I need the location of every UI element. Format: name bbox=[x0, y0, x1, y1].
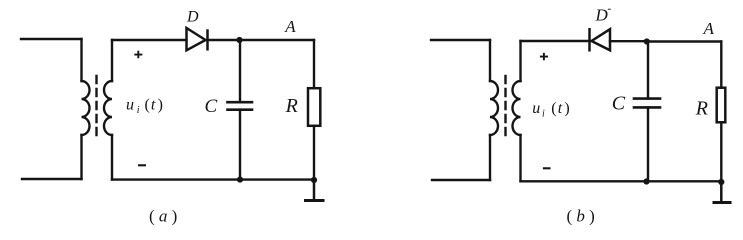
wire: circuit (a) top wire node to right corner bbox=[240, 39, 315, 41]
node: ground junction (b) bbox=[718, 179, 724, 185]
node: capacitor bottom junction (a) bbox=[237, 177, 243, 183]
wire: circuit (b) top wire left segment to diode bbox=[521, 40, 590, 42]
wire: circuit (a) right vertical lower (resistor to bottom) bbox=[313, 126, 315, 180]
svg-text:( a ): ( a ) bbox=[149, 207, 177, 226]
transformer T2 core (b) bbox=[504, 76, 506, 138]
svg-text:D: D bbox=[595, 6, 609, 25]
wire: circuit (a) right vertical upper (to resistor) bbox=[313, 40, 315, 88]
svg-text:R: R bbox=[695, 97, 708, 119]
wire: circuit (b) secondary left vertical bbox=[519, 41, 521, 181]
wire: circuit (a) primary left vertical lower bbox=[80, 135, 82, 179]
diode D (b) reversed bbox=[590, 29, 611, 50]
wire: circuit (a) capacitor top lead bbox=[239, 40, 241, 102]
wire: circuit (b) right vertical lower (resistor to bottom) bbox=[720, 122, 722, 182]
transformer T1 secondary winding (a) bbox=[104, 81, 112, 135]
wire: circuit (a) top wire left segment to diode bbox=[112, 39, 187, 41]
svg-text:A: A bbox=[703, 19, 715, 38]
resistor R (b) bbox=[717, 88, 726, 123]
label - polarity (b) bbox=[543, 167, 551, 169]
wire: circuit (a) secondary left vertical bbox=[111, 40, 113, 180]
capacitor C (a) bbox=[228, 102, 253, 110]
svg-text:C: C bbox=[612, 93, 626, 115]
resistor R (a) bbox=[308, 88, 320, 126]
wire: circuit (b) primary left vertical upper bbox=[489, 40, 491, 81]
wire: circuit (b) right vertical upper (to resistor) bbox=[720, 42, 722, 88]
svg-text:ui(t): ui(t) bbox=[126, 96, 163, 116]
svg-text:A: A bbox=[284, 17, 296, 36]
label + polarity (a) bbox=[134, 51, 142, 58]
wire: circuit (b) top wire from diode to node bbox=[610, 40, 647, 42]
wire: circuit (b) bottom wire bbox=[521, 180, 722, 182]
wire: circuit (b) primary bottom lead bbox=[432, 179, 490, 181]
node: capacitor top junction (a) bbox=[236, 37, 242, 43]
label - polarity (a) bbox=[138, 164, 146, 166]
transformer T1 primary winding (a) bbox=[82, 81, 90, 135]
svg-text:R: R bbox=[285, 95, 298, 117]
label D superscript mark (b) bbox=[608, 8, 611, 10]
wire: circuit (a) bottom wire bbox=[112, 178, 314, 180]
wire: circuit (b) capacitor top lead bbox=[647, 42, 649, 99]
wire: circuit (b) primary top lead bbox=[431, 39, 490, 41]
node: capacitor top junction (b) bbox=[644, 38, 650, 44]
wire: circuit (a) primary bottom lead bbox=[22, 178, 82, 180]
svg-text:C: C bbox=[205, 96, 218, 117]
diode D (a) bbox=[187, 28, 208, 50]
svg-text:( b ): ( b ) bbox=[567, 207, 595, 226]
transformer T2 secondary winding (b) bbox=[513, 81, 521, 135]
transformer T1 core (a) bbox=[95, 76, 97, 138]
wire: circuit (b) capacitor bottom lead bbox=[647, 107, 649, 181]
wire: circuit (b) primary left vertical lower bbox=[489, 135, 491, 180]
svg-text:D: D bbox=[186, 9, 199, 26]
wire: circuit (a) capacitor bottom lead bbox=[239, 110, 241, 180]
wire: circuit (b) top wire node to right corner bbox=[647, 40, 722, 42]
wire: circuit (a) primary top lead bbox=[21, 38, 82, 40]
node: capacitor bottom junction (b) bbox=[643, 178, 649, 184]
label + polarity (b) bbox=[540, 53, 548, 60]
ground (b) bbox=[714, 182, 730, 203]
ground (a) bbox=[306, 180, 324, 201]
svg-text:ui(t): ui(t) bbox=[532, 100, 569, 120]
capacitor C (b) bbox=[634, 99, 660, 108]
wire: circuit (a) top wire from diode to node bbox=[208, 39, 240, 41]
transformer T2 primary winding (b) bbox=[490, 81, 498, 135]
wire: circuit (a) primary left vertical upper bbox=[80, 39, 82, 81]
node: ground junction (a) bbox=[311, 177, 317, 183]
